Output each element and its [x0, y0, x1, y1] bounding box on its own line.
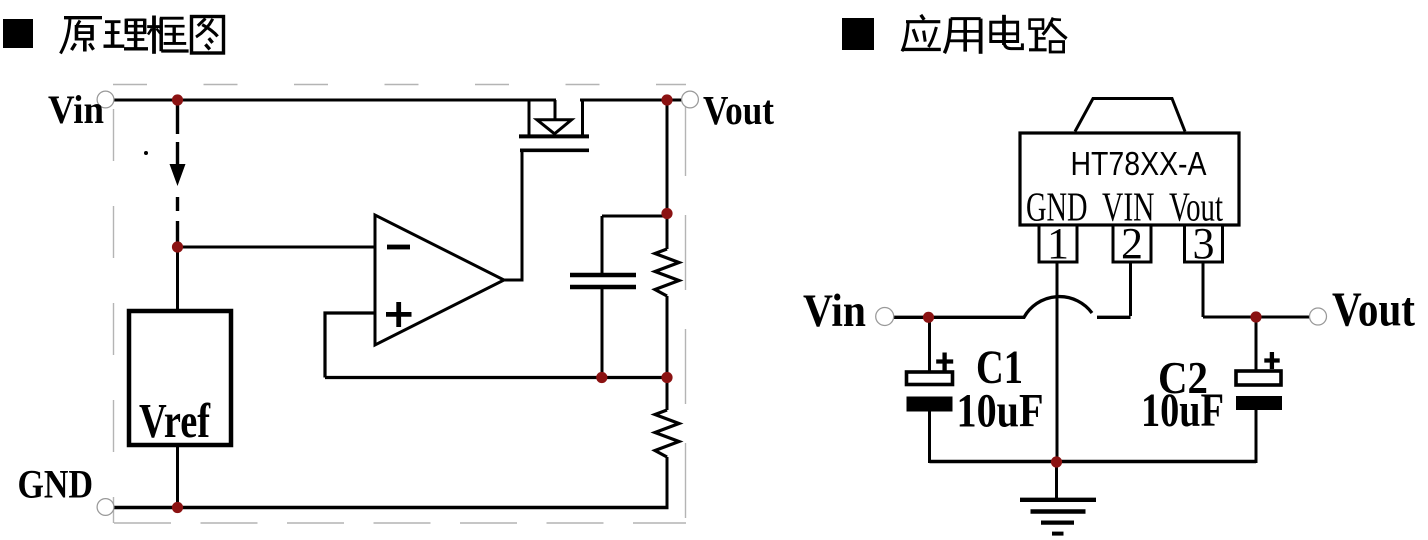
svg-text:GND: GND — [18, 462, 94, 507]
svg-text:Vin: Vin — [48, 87, 104, 132]
svg-text:Vref: Vref — [139, 395, 211, 448]
svg-text:1: 1 — [1047, 219, 1069, 268]
svg-text:10uF: 10uF — [957, 385, 1044, 438]
svg-text:Vin: Vin — [803, 285, 866, 337]
svg-text:10uF: 10uF — [1141, 384, 1224, 437]
svg-text:3: 3 — [1193, 219, 1215, 268]
svg-text:2: 2 — [1121, 219, 1143, 268]
svg-text:Vout: Vout — [1332, 282, 1416, 337]
svg-text:HT78XX-A: HT78XX-A — [1071, 145, 1207, 182]
svg-text:Vout: Vout — [703, 87, 774, 133]
